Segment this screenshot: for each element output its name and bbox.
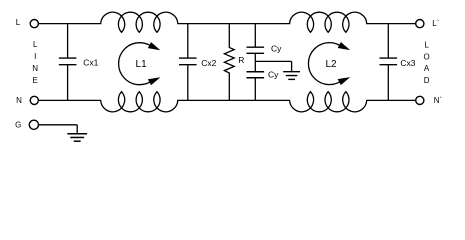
svg-text:L1: L1 — [136, 59, 148, 70]
svg-text:L: L — [33, 40, 38, 49]
svg-text:O: O — [423, 52, 429, 61]
svg-text:Cx3: Cx3 — [400, 58, 415, 68]
svg-text:N: N — [16, 96, 22, 105]
svg-text:I: I — [34, 52, 36, 61]
svg-text:Cy: Cy — [271, 44, 282, 54]
svg-text:Cy: Cy — [268, 70, 279, 80]
svg-text:E: E — [33, 76, 38, 85]
svg-text:Cx1: Cx1 — [83, 58, 98, 68]
svg-text:L: L — [16, 18, 21, 27]
svg-text:A: A — [424, 64, 430, 73]
svg-text:L`: L` — [432, 19, 439, 28]
svg-text:Cx2: Cx2 — [201, 58, 216, 68]
svg-text:N`: N` — [434, 96, 443, 105]
svg-text:L: L — [424, 40, 429, 49]
svg-text:N: N — [32, 64, 38, 73]
svg-text:G: G — [15, 120, 21, 129]
svg-text:D: D — [424, 76, 430, 85]
svg-text:R: R — [238, 55, 244, 65]
svg-text:L2: L2 — [325, 59, 337, 70]
